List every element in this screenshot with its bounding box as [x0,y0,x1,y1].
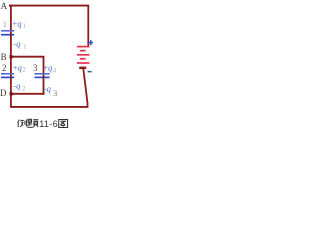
wire: B horizontal to branch 3 [11,56,45,58]
svg-text:-q: -q [13,80,21,90]
caption: 题 glyph [27,119,38,127]
battery + polarity label [89,40,94,45]
charge label -q3 [44,83,57,97]
wire: right vertical from top corner to battery + [87,5,89,47]
svg-text:D: D [0,88,7,98]
svg-text:11-6: 11-6 [39,119,58,129]
wire: left vertical A-B-D to bottom [10,5,12,107]
svg-text:-q: -q [44,83,52,93]
capacitor C3 plates [35,74,50,78]
charge label -q2 [13,80,26,92]
svg-text:-q: -q [13,38,21,48]
svg-text:2: 2 [2,63,7,73]
wire: outer bottom horizontal [10,106,88,108]
svg-text:1: 1 [3,20,7,29]
svg-text:1: 1 [23,43,26,50]
capacitor C2 plates [1,74,14,78]
wire over C2 lower plate [10,77,12,79]
charge label -q1 [13,38,26,50]
battery E plates [77,47,89,63]
node D junction dot [10,92,13,95]
svg-text:B: B [1,52,7,62]
wire: battery negative lead to bottom-right corner (slanted) [83,69,87,107]
caption: 图 glyph [59,120,68,128]
svg-text:+q: +q [13,63,23,73]
wire over C3 lower plate [43,77,45,79]
svg-text:2: 2 [22,67,26,74]
node B junction dot [10,55,13,58]
wire: top horizontal A to top-right corner [9,5,88,7]
charge label +q3 [43,63,57,75]
caption: 例 glyph [18,119,27,127]
charge label +q2 [13,63,27,75]
svg-text:+q: +q [43,63,53,73]
svg-text:3: 3 [33,63,38,73]
svg-text:3: 3 [53,88,57,98]
svg-text:+q: +q [12,18,22,28]
charge label +q1 [12,18,26,29]
capacitor C1 plates [1,31,14,35]
battery - polarity label [88,71,92,73]
svg-text:1: 1 [23,23,26,30]
background [0,0,94,133]
wire: inner bottom horizontal D to branch 3 [11,93,45,95]
wire over C1 lower plate [10,34,12,36]
svg-text:A: A [1,1,8,11]
wire: branch-3 vertical through C3 [43,56,45,95]
svg-text:2: 2 [22,86,26,93]
svg-text:4: 4 [53,68,57,75]
battery final thick negative plate [79,67,86,69]
